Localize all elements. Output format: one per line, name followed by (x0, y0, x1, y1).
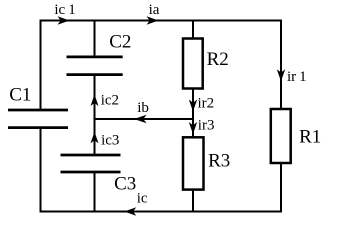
capacitor C2 (67, 57, 123, 75)
wire: left rail upper (to C1 top plate) (40, 20, 42, 111)
svg-text:ir 1: ir 1 (287, 69, 307, 85)
svg-text:ic 1: ic 1 (54, 2, 75, 18)
wire: ib branch (node B to R2/R3 node) (95, 118, 194, 120)
svg-text:C3: C3 (114, 174, 136, 195)
svg-text:C2: C2 (109, 32, 131, 53)
arrow ir1 (down, right rail) (277, 69, 285, 81)
svg-text:ic2: ic2 (101, 93, 119, 109)
arrow ic (left, on bottom rail) (124, 207, 136, 215)
arrow ib (left, on ib branch) (134, 115, 147, 123)
wire: right rail upper (top rail to R1) (280, 20, 282, 110)
svg-text:ic: ic (137, 191, 148, 207)
resistor R3 (183, 137, 204, 189)
wire: left rail lower (C1 bottom plate to bottom rail) (40, 128, 42, 213)
arrow ir2 (down, into node) (189, 100, 197, 112)
wire: node to R3 top (192, 119, 194, 137)
resistor R2 (183, 39, 203, 89)
wire: C2 bottom to node B (94, 75, 96, 120)
svg-text:ir3: ir3 (198, 118, 215, 134)
arrow ic1 (right, on top rail) (58, 16, 70, 24)
wire: R2 top stub (192, 21, 194, 40)
svg-text:R2: R2 (207, 49, 229, 70)
arrow ic3 (up, toward node B) (91, 132, 99, 144)
wire: C3 bottom to bottom rail (94, 172, 96, 213)
wire: R2 bottom to node (192, 88, 194, 119)
svg-text:ir2: ir2 (198, 96, 215, 112)
svg-text:C1: C1 (9, 85, 31, 106)
wire: C2 top stub (94, 21, 96, 58)
arrow ir3 (down, into R3) (189, 122, 197, 134)
svg-text:R3: R3 (208, 151, 230, 172)
capacitor C3 (61, 155, 121, 172)
svg-text:ic3: ic3 (101, 133, 119, 149)
wire: right rail lower (R1 to bottom rail) (280, 163, 282, 213)
arrow ia (right, on top rail) (147, 16, 159, 24)
wire: R3 bottom to bottom rail (192, 190, 194, 212)
arrow ic2 (up, mid branch) (91, 94, 99, 106)
resistor R1 (271, 109, 291, 163)
wire: top rail (41, 20, 282, 22)
svg-text:R1: R1 (299, 126, 321, 147)
svg-text:ib: ib (137, 100, 149, 116)
wire: bottom rail (41, 211, 282, 213)
svg-text:ia: ia (149, 2, 160, 18)
wire: node B to C3 top (94, 119, 96, 155)
capacitor C1 (8, 110, 68, 128)
